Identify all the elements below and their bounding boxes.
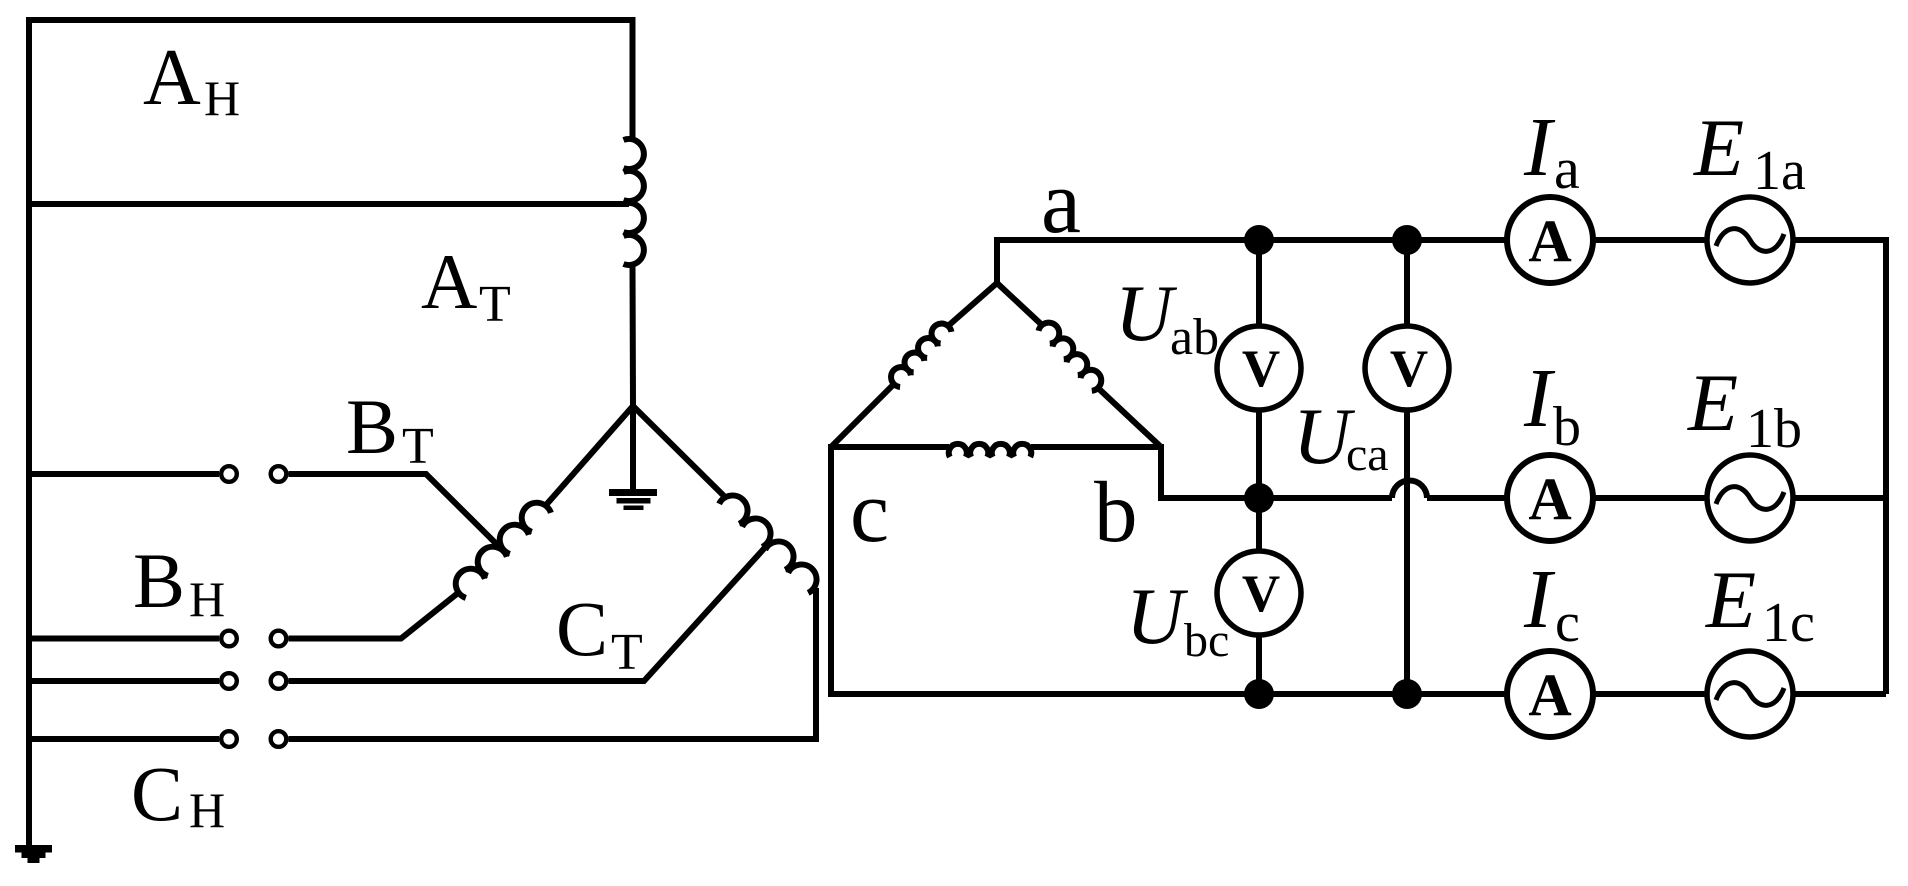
- svg-text:C: C: [556, 585, 608, 672]
- wire B_H row left: [26, 636, 219, 642]
- svg-text:U: U: [1126, 573, 1189, 661]
- wire row A_T tap: [26, 201, 629, 207]
- ammeter I_b: [1507, 455, 1593, 541]
- svg-text:T: T: [402, 418, 434, 475]
- switch B_H contacts: [221, 631, 286, 647]
- svg-text:B: B: [346, 383, 398, 470]
- svg-text:c: c: [850, 464, 889, 561]
- ammeter I_a: [1507, 197, 1593, 283]
- wire row a between ammeter and source: [1595, 237, 1705, 243]
- wire row b source to right bus: [1795, 495, 1886, 501]
- svg-text:A: A: [421, 238, 477, 325]
- wire corner b down and row b left: [1161, 444, 1392, 498]
- delta winding left side with inductor: [948, 283, 997, 326]
- svg-text:E: E: [1705, 554, 1756, 645]
- svg-text:a: a: [1554, 136, 1580, 201]
- wire hop over U_ca lead: [1392, 481, 1427, 498]
- inductor winding A (phase A, 4 loops): [624, 139, 644, 265]
- svg-text:H: H: [189, 782, 225, 838]
- node dot row c / Uca lead: [1392, 679, 1422, 709]
- wire B_T tap diagonal: [289, 474, 503, 550]
- delta winding bottom side with inductor: [828, 444, 949, 450]
- svg-text:B: B: [133, 537, 185, 624]
- svg-text:1a: 1a: [1753, 140, 1806, 202]
- AC source E_1c: [1707, 651, 1793, 737]
- wire star point to winding B: [546, 406, 633, 505]
- wire row b between ammeter and source: [1595, 495, 1705, 501]
- svg-text:b: b: [1094, 463, 1138, 560]
- svg-text:1c: 1c: [1762, 592, 1815, 654]
- inductor winding B (4 loops): [456, 503, 551, 598]
- switch B_T contacts: [221, 466, 286, 482]
- wire C_T row left: [26, 678, 219, 684]
- wire node a stub and row a: [997, 240, 1505, 283]
- wire row a right corner and right bus: [1795, 240, 1886, 694]
- svg-text:A: A: [1528, 208, 1571, 274]
- svg-text:T: T: [479, 276, 511, 333]
- svg-text:H: H: [189, 571, 225, 627]
- node dot row a / Uca lead: [1392, 225, 1422, 255]
- wire C_H row left: [26, 736, 219, 742]
- svg-text:I: I: [1523, 101, 1556, 194]
- wire row b to ammeter: [1427, 495, 1505, 501]
- wire winding A bottom to star point: [630, 266, 637, 406]
- wire C_T tap diagonal: [289, 542, 771, 681]
- wire row A_H top: [26, 20, 633, 138]
- svg-text:b: b: [1553, 396, 1581, 458]
- switch C_T contacts: [221, 673, 286, 689]
- svg-text:U: U: [1115, 270, 1178, 358]
- svg-text:H: H: [204, 70, 240, 126]
- wire winding B lower end to B_H row: [289, 593, 459, 639]
- svg-text:V: V: [1390, 340, 1428, 398]
- svg-text:a: a: [1041, 153, 1081, 252]
- wire B_T row left: [26, 471, 219, 477]
- ground at bottom of left bus: [15, 845, 52, 863]
- wire row c between ammeter and source: [1595, 691, 1705, 697]
- svg-text:c: c: [1555, 592, 1580, 654]
- wire voltmeter lead Uca vertical: [1404, 240, 1410, 327]
- svg-text:ca: ca: [1346, 428, 1389, 481]
- svg-text:1b: 1b: [1746, 398, 1802, 460]
- node dot row b / Uab lead: [1244, 483, 1274, 513]
- wire star point to winding C: [633, 406, 724, 496]
- svg-text:A: A: [143, 34, 201, 122]
- svg-text:E: E: [1693, 102, 1744, 193]
- svg-text:ab: ab: [1170, 309, 1219, 366]
- svg-text:I: I: [1523, 553, 1556, 646]
- ammeter I_c: [1507, 651, 1593, 737]
- delta winding right side with inductor: [997, 283, 1042, 325]
- svg-text:V: V: [1242, 565, 1280, 623]
- voltmeter U_bc: [1217, 551, 1301, 635]
- svg-text:V: V: [1242, 340, 1280, 398]
- switch C_H contacts: [221, 731, 286, 747]
- svg-text:A: A: [1528, 662, 1571, 728]
- AC source E_1b: [1707, 455, 1793, 541]
- wire row c source to right bus: [1795, 691, 1886, 697]
- svg-text:bc: bc: [1184, 614, 1229, 667]
- svg-text:E: E: [1687, 357, 1738, 448]
- voltmeter U_ca: [1365, 326, 1449, 410]
- svg-text:I: I: [1523, 352, 1556, 445]
- svg-text:A: A: [1528, 466, 1571, 532]
- voltmeter U_ab: [1217, 326, 1301, 410]
- wire corner c down and row c: [831, 444, 1505, 694]
- node dot row c / Ubc lead: [1244, 679, 1274, 709]
- ground at star point: [609, 406, 657, 510]
- svg-text:C: C: [131, 750, 183, 837]
- svg-text:T: T: [611, 624, 643, 681]
- wire left bus vertical: [26, 17, 32, 849]
- node dot row a / Uab lead: [1244, 225, 1274, 255]
- AC source E_1a: [1707, 197, 1793, 283]
- wire winding C end down to C_H row: [289, 588, 817, 739]
- wire voltmeter lead Uab/Ubc vertical: [1256, 240, 1262, 327]
- inductor winding C (4 loops): [719, 495, 816, 592]
